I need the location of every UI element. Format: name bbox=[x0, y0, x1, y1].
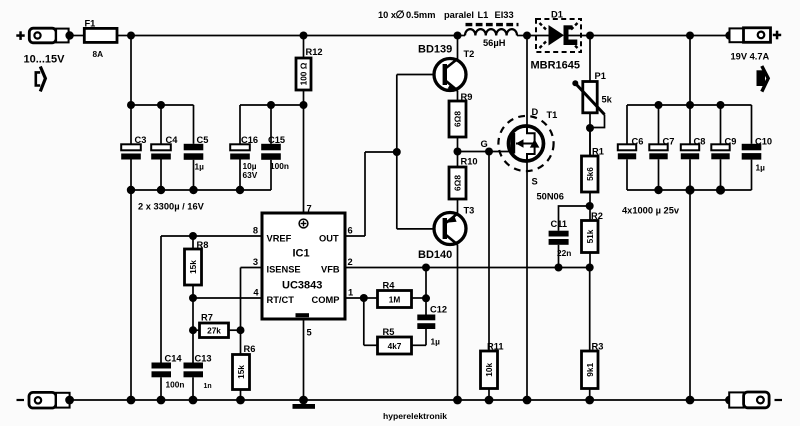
resistor R7 27k bbox=[193, 313, 241, 338]
wire VREF down to C14 bbox=[160, 236, 162, 363]
node C5 bottom bbox=[189, 186, 197, 194]
wire connector to F1 bbox=[70, 35, 85, 37]
svg-text:G: G bbox=[481, 139, 488, 149]
node gnd R3 bbox=[585, 396, 594, 405]
ground rail bbox=[70, 399, 730, 401]
svg-text:56µH: 56µH bbox=[483, 38, 506, 48]
svg-text:C4: C4 bbox=[166, 135, 179, 145]
svg-text:T1: T1 bbox=[547, 110, 558, 120]
svg-text:27k: 27k bbox=[207, 325, 221, 335]
capacitor C7 bbox=[649, 105, 674, 190]
node driver base junction bbox=[393, 148, 401, 156]
svg-text:R4: R4 bbox=[383, 281, 396, 291]
node gnd R6 bbox=[236, 396, 245, 405]
wire T1 drain bbox=[526, 36, 528, 127]
capacitor C14 100n bbox=[152, 353, 185, 400]
node R2 bottom / R3 top bbox=[586, 264, 594, 272]
wire left column to ground rail bbox=[130, 190, 132, 400]
svg-text:50N06: 50N06 bbox=[537, 192, 564, 202]
wire VFB to C12 node bbox=[425, 268, 427, 315]
resistor R12 100 Ohm bbox=[296, 32, 323, 214]
svg-text:8: 8 bbox=[253, 226, 258, 236]
pin 2 wire VFB line bbox=[345, 257, 590, 268]
diode D1 MBR1645 bbox=[531, 9, 582, 71]
svg-text:C10: C10 bbox=[755, 137, 772, 147]
svg-text:D: D bbox=[532, 107, 539, 117]
fuse F1 bbox=[84, 18, 117, 59]
svg-text:1µ: 1µ bbox=[195, 161, 205, 171]
node gnd pin5 bbox=[299, 396, 308, 405]
svg-text:1µ: 1µ bbox=[431, 337, 441, 347]
pin 4 wire RT/CT bbox=[193, 288, 262, 299]
resistor R11 10k gate pulldown bbox=[481, 152, 504, 401]
wire node down to cap bank bbox=[130, 36, 132, 106]
resistor R2 51k bbox=[582, 211, 603, 268]
svg-text:C15: C15 bbox=[268, 135, 285, 145]
svg-text:100 Ω: 100 Ω bbox=[299, 62, 309, 85]
svg-text:19V 4.7A: 19V 4.7A bbox=[731, 52, 770, 62]
potentiometer P1 5k bbox=[572, 36, 612, 157]
node gate drive junction bbox=[454, 148, 462, 156]
wire T2 collector to rail bbox=[457, 36, 459, 60]
svg-text:4x1000 µ 25v: 4x1000 µ 25v bbox=[622, 206, 680, 216]
resistor R1 5k6 bbox=[582, 128, 604, 221]
svg-text:F1: F1 bbox=[85, 18, 96, 28]
node C9 top bbox=[717, 101, 725, 109]
node R1 bottom / R2 top bbox=[586, 202, 594, 210]
svg-text:R11: R11 bbox=[487, 342, 504, 352]
svg-text:6: 6 bbox=[348, 226, 353, 236]
svg-text:6Ω8: 6Ω8 bbox=[453, 175, 463, 191]
capacitor C10 1u bbox=[742, 105, 772, 190]
svg-text:ISENSE: ISENSE bbox=[267, 264, 301, 274]
svg-text:10k: 10k bbox=[484, 362, 494, 376]
svg-text:6Ω8: 6Ω8 bbox=[453, 111, 463, 127]
svg-text:63V: 63V bbox=[243, 170, 258, 180]
svg-text:C6: C6 bbox=[632, 137, 644, 147]
svg-text:BD139: BD139 bbox=[418, 43, 452, 55]
wire T1 source to ground rail bbox=[526, 161, 528, 400]
svg-text:R8: R8 bbox=[197, 240, 209, 250]
node L1 right / T1 drain bbox=[523, 32, 531, 40]
svg-text:RT/CT: RT/CT bbox=[267, 295, 295, 305]
svg-text:4: 4 bbox=[253, 288, 259, 298]
output connector negative (-) bbox=[725, 392, 782, 408]
svg-text:C12: C12 bbox=[430, 305, 447, 315]
node R7 right bbox=[237, 326, 245, 334]
wire to D1 anode bbox=[527, 35, 549, 37]
svg-text:1µ: 1µ bbox=[756, 163, 766, 173]
resistor R9 6R8 bbox=[449, 92, 472, 167]
svg-text:COMP: COMP bbox=[312, 295, 340, 305]
wire F1 to node bbox=[117, 35, 131, 37]
wire cap bank to ground rail bbox=[689, 190, 691, 400]
node gnd C13 bbox=[189, 396, 198, 405]
svg-text:2: 2 bbox=[348, 257, 353, 267]
node VFB / C12 column bbox=[422, 264, 430, 272]
node output cap column bbox=[686, 32, 694, 40]
node R8 top bbox=[189, 232, 197, 240]
capacitor C15 100n bbox=[261, 105, 289, 190]
wire output cap bank feed bbox=[689, 36, 691, 106]
svg-text:R6: R6 bbox=[244, 344, 256, 354]
svg-text:C14: C14 bbox=[165, 353, 183, 363]
resistor R10 6R8 bbox=[449, 157, 478, 214]
pin 1 wire COMP bbox=[345, 288, 364, 299]
transistor T1 50N06 MOSFET bbox=[498, 107, 564, 202]
wire down to R7 tap bbox=[192, 298, 194, 363]
wire T2/T3 base rail bbox=[396, 75, 398, 229]
wire cap top rail C3-C5 bbox=[131, 104, 194, 106]
svg-text:D1: D1 bbox=[551, 9, 563, 19]
svg-text:BD140: BD140 bbox=[418, 249, 452, 261]
wire cap mid rail bbox=[131, 189, 271, 191]
svg-text:hyperelektronik: hyperelektronik bbox=[383, 411, 447, 421]
input connector J1 (+ 10...15V) bbox=[16, 28, 74, 65]
node: input rail junction bbox=[127, 32, 135, 40]
node gnd T3 bbox=[453, 396, 462, 405]
node R7 left bbox=[189, 326, 197, 334]
svg-text:5k: 5k bbox=[602, 95, 613, 105]
svg-text:C13: C13 bbox=[195, 353, 212, 363]
capacitor C3 bbox=[121, 105, 146, 190]
svg-text:MBR1645: MBR1645 bbox=[531, 60, 581, 72]
svg-text:R5: R5 bbox=[383, 327, 395, 337]
node gnd T1 source bbox=[523, 396, 532, 405]
svg-text:3: 3 bbox=[253, 257, 258, 267]
node C8 bottom bbox=[685, 185, 694, 194]
svg-text:22n: 22n bbox=[557, 248, 571, 258]
node R4 right / C12 top bbox=[422, 294, 430, 302]
node: cap bank top left bbox=[127, 101, 135, 109]
svg-text:T3: T3 bbox=[464, 206, 475, 216]
svg-text:51k: 51k bbox=[585, 229, 595, 243]
node C7 bottom bbox=[654, 186, 662, 194]
wire gate line bbox=[458, 151, 511, 153]
svg-text:5: 5 bbox=[307, 328, 312, 338]
svg-text:OUT: OUT bbox=[319, 233, 339, 243]
svg-text:1: 1 bbox=[348, 288, 353, 298]
svg-text:VREF: VREF bbox=[267, 233, 292, 243]
svg-text:15k: 15k bbox=[236, 365, 246, 379]
output arrow bbox=[757, 66, 769, 92]
node T2 collector / L1 left bbox=[454, 32, 462, 40]
node gnd C3 column bbox=[127, 396, 136, 405]
node C8 top bbox=[686, 101, 694, 109]
capacitor C11 22n bbox=[549, 219, 572, 268]
node C4 bottom bbox=[157, 186, 165, 194]
node gnd R11 bbox=[485, 396, 494, 405]
node R11 top on gate line bbox=[485, 148, 493, 156]
op-amp controller IC1 UC3843 bbox=[262, 213, 345, 319]
capacitor C8 bbox=[681, 105, 706, 190]
svg-text:9k1: 9k1 bbox=[585, 362, 595, 376]
node C16 bottom bbox=[236, 186, 244, 194]
node C4 top bbox=[157, 101, 165, 109]
node gnd cap bank bbox=[686, 396, 695, 405]
capacitor C6 bbox=[618, 105, 644, 190]
output connector J2 (+ 19V 4.7A) bbox=[725, 28, 781, 62]
svg-text:R3: R3 bbox=[592, 342, 604, 352]
resistor R8 15k bbox=[185, 236, 209, 298]
svg-text:5k6: 5k6 bbox=[585, 167, 595, 181]
svg-text:R12: R12 bbox=[306, 47, 323, 57]
wire top rail to T2 collector bbox=[131, 35, 458, 37]
pin 5 wire bbox=[303, 319, 305, 400]
wire T2 emitter to R9 bbox=[457, 91, 459, 102]
svg-text:P1: P1 bbox=[595, 71, 606, 81]
svg-text:1n: 1n bbox=[204, 383, 212, 390]
resistor R6 15k bbox=[233, 344, 256, 400]
svg-text:C7: C7 bbox=[663, 137, 675, 147]
svg-text:100n: 100n bbox=[270, 161, 289, 171]
node C11 bottom bbox=[555, 264, 563, 272]
svg-text:IC1: IC1 bbox=[293, 247, 310, 259]
svg-text:C11: C11 bbox=[551, 219, 568, 229]
pin 6 wire OUT bbox=[345, 152, 397, 236]
svg-text:R7: R7 bbox=[201, 313, 213, 323]
node RT/CT junction bbox=[189, 294, 197, 302]
pin 3 wire ISENSE bbox=[241, 257, 263, 355]
capacitor C4 bbox=[151, 105, 178, 190]
capacitor C13 1n bbox=[184, 353, 212, 400]
svg-text:R10: R10 bbox=[461, 157, 478, 167]
svg-text:7: 7 bbox=[307, 204, 312, 214]
svg-text:2 x 3300µ / 16V: 2 x 3300µ / 16V bbox=[138, 202, 205, 212]
svg-text:VFB: VFB bbox=[321, 264, 340, 274]
svg-text:R2: R2 bbox=[591, 211, 603, 221]
ground symbol bbox=[293, 404, 316, 409]
svg-text:UC3843: UC3843 bbox=[282, 280, 322, 292]
transistor T2 BD139 bbox=[397, 43, 475, 92]
wire output cap top rail bbox=[627, 104, 752, 106]
node C9 bottom bbox=[716, 185, 725, 194]
node D1 cathode / P1 top bbox=[586, 32, 594, 40]
wire to C11 bbox=[559, 206, 590, 231]
resistor R5 4k7 bbox=[364, 298, 426, 354]
svg-text:15k: 15k bbox=[188, 260, 198, 274]
node C15 top bbox=[267, 101, 275, 109]
svg-text:10...15V: 10...15V bbox=[24, 53, 66, 65]
wire output rail bbox=[590, 35, 730, 37]
svg-text:R9: R9 bbox=[461, 92, 473, 102]
svg-text:C16: C16 bbox=[241, 135, 258, 145]
svg-text:C5: C5 bbox=[197, 135, 209, 145]
wire T3 collector to ground rail bbox=[457, 245, 459, 401]
capacitor C12 1u bbox=[417, 305, 447, 347]
inductor L1 56uH bbox=[458, 25, 528, 49]
node C7 top bbox=[655, 101, 663, 109]
resistor R4 1M bbox=[364, 281, 426, 308]
svg-text:C3: C3 bbox=[135, 135, 147, 145]
node gnd C14 bbox=[157, 396, 166, 405]
capacitor C5 1u bbox=[184, 105, 209, 190]
svg-text:1M: 1M bbox=[389, 294, 401, 304]
capacitor C9 bbox=[711, 105, 736, 190]
svg-text:100n: 100n bbox=[166, 380, 185, 390]
wire D1 cathode to output rail bbox=[569, 35, 591, 37]
node COMP junction bbox=[360, 294, 368, 302]
svg-text:S: S bbox=[532, 177, 538, 187]
svg-text:T2: T2 bbox=[464, 49, 475, 59]
node C3 bottom bbox=[127, 186, 135, 194]
input arrow bbox=[36, 67, 46, 92]
svg-text:C8: C8 bbox=[694, 137, 706, 147]
svg-text:4k7: 4k7 bbox=[388, 341, 402, 351]
wire cap top rail C16-R12 bbox=[240, 104, 304, 106]
transistor T3 BD140 bbox=[397, 206, 475, 262]
capacitor C16 10u 63V bbox=[230, 105, 258, 190]
svg-text:R1: R1 bbox=[592, 147, 604, 157]
resistor R3 9k1 bbox=[582, 268, 604, 401]
input connector negative (-) bbox=[17, 392, 75, 408]
svg-text:C9: C9 bbox=[725, 137, 737, 147]
pin 8 wire VREF bbox=[161, 226, 262, 237]
svg-text:8A: 8A bbox=[93, 49, 104, 59]
wire output cap bottom rail bbox=[627, 189, 752, 191]
